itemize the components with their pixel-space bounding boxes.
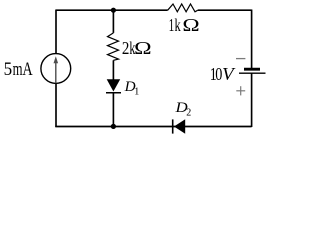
svg-text:V: V xyxy=(222,64,236,84)
svg-text:Ω: Ω xyxy=(134,38,152,58)
svg-text:m: m xyxy=(13,59,23,80)
svg-text:Ω: Ω xyxy=(182,15,199,35)
svg-text:5: 5 xyxy=(4,59,13,80)
svg-text:k: k xyxy=(175,15,181,35)
svg-text:1: 1 xyxy=(169,15,175,35)
svg-text:2: 2 xyxy=(186,107,191,118)
svg-text:1: 1 xyxy=(134,86,139,97)
svg-text:2: 2 xyxy=(122,38,129,58)
svg-text:A: A xyxy=(22,59,33,80)
